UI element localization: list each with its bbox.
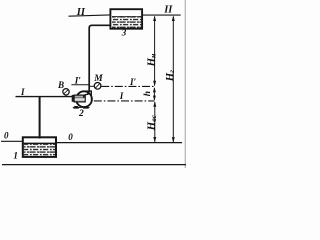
svg-text:I: I: [119, 91, 124, 101]
level line I right (dash-dot): [94, 100, 155, 102]
svg-text:2: 2: [78, 109, 84, 119]
scan border right edge: [184, 0, 186, 168]
svg-text:II: II: [76, 7, 86, 18]
volute circle: [76, 91, 92, 107]
level I' left segment: [71, 84, 88, 86]
svg-text:Hвс: Hвс: [146, 114, 158, 131]
level line I' right (dash-dot): [101, 85, 154, 87]
tank 1: [23, 137, 56, 157]
svg-text:II: II: [163, 5, 173, 16]
pump 2: [72, 90, 92, 108]
svg-text:Hн: Hн: [145, 53, 157, 67]
suction pipe vertical: [39, 96, 41, 139]
svg-text:B: B: [57, 80, 64, 90]
svg-text:3: 3: [121, 28, 127, 38]
svg-text:M: M: [93, 74, 103, 84]
discharge flange: [85, 90, 92, 92]
pump feet: [73, 106, 90, 108]
svg-text:1: 1: [13, 152, 18, 162]
discharge throat + spiral: [84, 92, 88, 98]
svg-text:I: I: [20, 87, 25, 97]
tank 3: [110, 9, 142, 29]
level line II (right segment): [143, 14, 181, 16]
baseline (figure bottom rule): [2, 164, 186, 166]
suction line I run (tank 1 to pump): [16, 96, 73, 98]
level line II (left segment): [69, 15, 111, 16]
dimension Hвс (I to 0): [153, 101, 156, 142]
svg-text:0: 0: [4, 131, 9, 141]
manometer M: [90, 83, 101, 90]
svg-text:I′: I′: [129, 77, 137, 87]
svg-text:I′: I′: [74, 75, 82, 85]
datum line 0-0 left: [1, 140, 22, 142]
dimension h (I' to I): [153, 87, 156, 100]
suction cylinder: [74, 95, 85, 102]
discharge pipe (riser + top run into tank 3): [89, 25, 110, 90]
svg-text:h: h: [143, 91, 153, 96]
datum line 0-0 right: [56, 142, 182, 144]
dimension Hн (II to I'): [153, 16, 156, 87]
vacuum gauge B: [63, 89, 69, 97]
svg-text:Hг: Hг: [164, 70, 176, 82]
dimension Hг (II to 0): [172, 16, 175, 143]
suction flange: [72, 95, 75, 102]
svg-text:0: 0: [68, 132, 73, 142]
